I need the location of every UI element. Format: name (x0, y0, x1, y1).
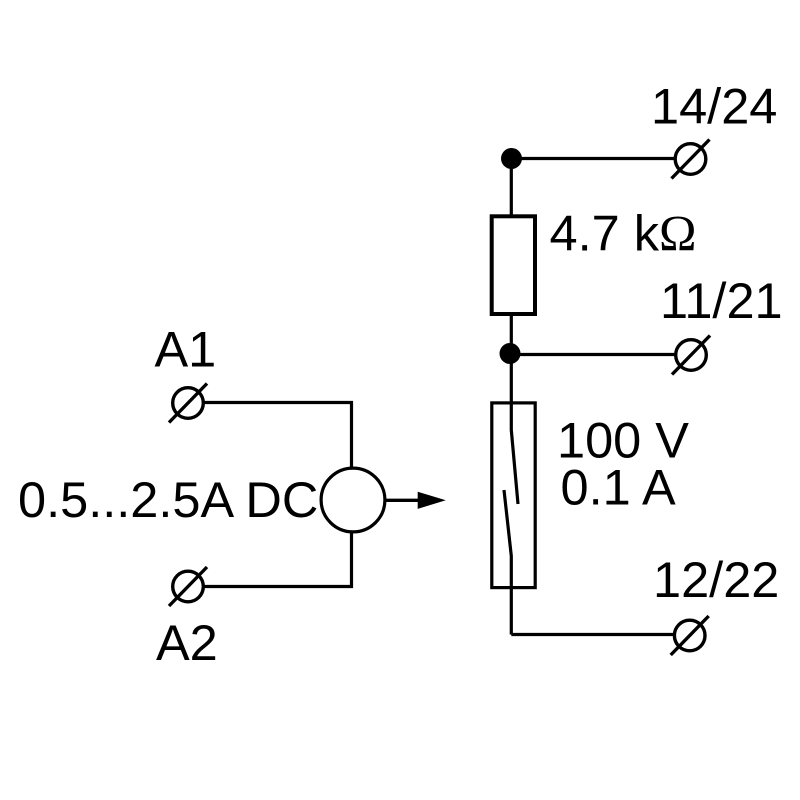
resistor R 4.7k body (492, 216, 535, 314)
svg-text:A1: A1 (155, 321, 217, 378)
current sensor circle (321, 468, 385, 532)
svg-text:0.1 A: 0.1 A (561, 459, 676, 516)
wire from node down to resistor (510, 159, 513, 217)
wire A1 to sensor (205, 403, 352, 469)
terminal 14/24 (672, 140, 710, 179)
wire top horizontal to 14/24 (512, 157, 675, 160)
arrow head (418, 492, 446, 509)
svg-text:A2: A2 (156, 614, 218, 671)
switch body box (492, 403, 535, 588)
terminal 12/22 (671, 616, 709, 655)
arrow shaft output (385, 499, 420, 502)
svg-text:14/24: 14/24 (651, 78, 777, 135)
terminal A2 (169, 567, 207, 606)
svg-text:12/22: 12/22 (653, 551, 779, 608)
svg-text:4.7 kΩ: 4.7 kΩ (550, 205, 697, 262)
wire bottom horizontal to 12/22 (511, 633, 673, 636)
terminal A1 (169, 384, 207, 423)
terminal 11/21 (672, 336, 710, 375)
switch top lead and upper contact blade (511, 354, 518, 505)
wire A2 to sensor (205, 532, 352, 587)
wire middle horizontal to 11/21 (511, 353, 675, 356)
svg-text:11/21: 11/21 (660, 272, 783, 329)
node junction dot middle (500, 343, 521, 364)
svg-text:0.5...2.5A DC: 0.5...2.5A DC (18, 471, 318, 528)
switch lower contact blade and bottom lead (504, 490, 511, 635)
node junction dot top (501, 148, 522, 169)
wire resistor to middle node (510, 314, 513, 354)
